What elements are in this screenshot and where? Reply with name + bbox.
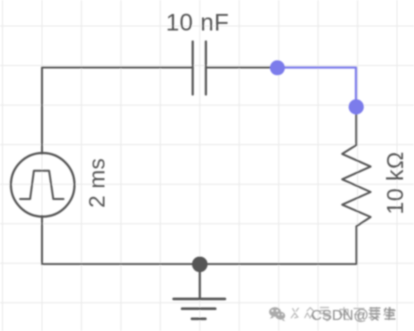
wire left vertical <box>41 68 43 154</box>
pulse source waveform <box>20 171 63 199</box>
light trailing char 4 <box>384 308 394 320</box>
watermark wechat icon <box>269 307 285 321</box>
light trailing char 1 <box>340 308 349 320</box>
wire capacitor to node A <box>206 67 278 69</box>
svg-text:10 nF: 10 nF <box>166 9 229 36</box>
char 众 <box>305 308 315 319</box>
svg-text:2 ms: 2 ms <box>84 158 109 208</box>
wire bottom horizontal <box>42 263 356 265</box>
wire resistor bottom <box>355 226 357 264</box>
resistor R1 zigzag <box>342 145 370 226</box>
node B (blue) <box>349 99 364 114</box>
wire top-left horizontal <box>42 67 193 69</box>
char 公 <box>291 308 298 318</box>
light trailing char 2 <box>354 308 364 320</box>
capacitor C1 plates <box>192 42 194 95</box>
wire selected (blue) horizontal <box>277 68 356 107</box>
dark trailing char 1 <box>370 308 380 320</box>
ground stem <box>199 270 201 299</box>
ground bar 2 <box>182 307 215 310</box>
wire resistor top <box>355 113 357 145</box>
pulse source V1 circle <box>11 153 75 217</box>
ground bar 1 <box>174 298 225 301</box>
junction node (ground) <box>192 257 208 273</box>
dark trailing char 2 <box>385 308 396 320</box>
light trailing char 3 <box>369 308 379 320</box>
ground bar 3 <box>192 317 206 320</box>
svg-text:10 kΩ: 10 kΩ <box>382 151 408 214</box>
wire source bottom vertical <box>41 216 43 264</box>
watermark text light: 公众号 ... (drawn strokes, font-independent) <box>291 308 394 321</box>
svg-text:CSDN@: CSDN@ <box>311 307 369 324</box>
node A (blue) <box>270 60 285 75</box>
char 号 <box>320 308 331 321</box>
